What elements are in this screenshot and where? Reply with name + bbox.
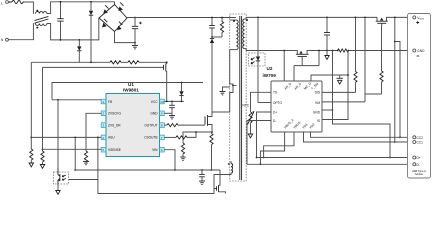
svg-text:CC1: CC1 xyxy=(417,141,424,145)
svg-text:KM: KM xyxy=(315,101,320,105)
transformer secondary winding xyxy=(243,17,284,50)
svg-text:GND: GND xyxy=(150,112,158,116)
transformer core xyxy=(240,16,242,180)
terminal CC1 xyxy=(413,141,423,145)
svg-text:DIS: DIS xyxy=(315,91,320,95)
wire L to choke xyxy=(24,2,33,14)
bulk capacitor C1 polarized xyxy=(132,17,142,43)
U1 pin 2 ZVSCFG xyxy=(101,111,121,116)
ZVSCFG resistor R6 with bar ground xyxy=(83,151,89,165)
svg-text:iW9801: iW9801 xyxy=(123,88,139,93)
svg-text:FB: FB xyxy=(108,100,112,104)
transformer T1 dashed box xyxy=(230,14,247,181)
wire ASU drop to bottom rail xyxy=(97,137,99,193)
svg-text:NTC: NTC xyxy=(243,104,250,108)
NTC thermistor xyxy=(243,92,272,138)
wire FB to opto collector xyxy=(52,99,101,169)
primary ground at bulk cap xyxy=(132,42,138,49)
svg-text:CSOUTB: CSOUTB xyxy=(144,136,157,140)
svg-text:GND: GND xyxy=(417,49,425,53)
secondary ground rail xyxy=(284,50,296,52)
U2 bottom pin labels rotated xyxy=(283,117,316,129)
snubber capacitor C2 xyxy=(209,17,215,37)
load switch MOSFET Q4 xyxy=(374,17,390,26)
svg-text:D+: D+ xyxy=(273,110,277,114)
U2 top pin labels rotated xyxy=(283,81,319,91)
IS route from U2 to shunt xyxy=(322,51,349,120)
terminal CC2 xyxy=(413,136,423,140)
U2 right pin labels xyxy=(313,91,321,123)
wire B gate of ZVS fet xyxy=(43,66,164,68)
chassis ground arrow at primary xyxy=(220,87,230,95)
svg-text:VSENSE: VSENSE xyxy=(108,148,121,152)
U1 pin 5 VSENSE xyxy=(101,147,121,152)
terminal D- xyxy=(413,163,420,167)
DIS line with resistor R9 xyxy=(322,17,357,93)
op IC U1 iW9801 body xyxy=(106,82,160,157)
vertical to CC2 xyxy=(394,41,401,139)
U2 VBUS pin route xyxy=(263,132,294,158)
optocoupler LED xyxy=(249,53,266,66)
wire N to choke xyxy=(8,24,33,40)
kelvin ground off sense wire xyxy=(337,75,343,84)
terminal GND xyxy=(413,49,425,56)
KM line to VBUS xyxy=(322,17,366,102)
U2 VD2 route to CC2 xyxy=(311,132,414,137)
wire ASU long horizontal xyxy=(31,136,101,138)
terminal VBUS xyxy=(413,16,425,24)
optocoupler phototransistor xyxy=(53,168,68,184)
wire y170 extension xyxy=(175,169,220,171)
MOSFET Q1 primary switch xyxy=(205,112,213,133)
wire CSOUT to sense node xyxy=(164,131,197,139)
snubber resistor R2 xyxy=(212,17,224,37)
wire choke bottom rail xyxy=(49,18,99,40)
svg-text:ASU: ASU xyxy=(108,136,115,140)
U2 D+ pin route xyxy=(256,112,271,158)
svg-text:GND: GND xyxy=(313,110,321,114)
VCC aux rail xyxy=(52,83,203,100)
svg-text:IS: IS xyxy=(317,119,320,123)
transformer primary winding xyxy=(230,20,238,50)
OUTPUT gate resistor R7 xyxy=(164,124,205,127)
U2 left pin labels xyxy=(273,91,282,123)
wire VIN loop xyxy=(75,150,175,170)
ZVS MOSFET Q3 xyxy=(164,61,168,101)
svg-text:VIN: VIN xyxy=(152,148,158,152)
svg-text:10: 10 xyxy=(160,100,164,104)
VCC decoupling capacitor C4 xyxy=(169,101,175,113)
ground arrow below opto xyxy=(56,184,60,194)
diode D1 startup feed xyxy=(89,1,93,62)
VSENSE resistor R5 with arrow ground xyxy=(40,148,44,168)
U2 VD1 route to CC1 xyxy=(304,132,414,142)
svg-text:U2: U2 xyxy=(267,66,273,71)
transformer aux winding xyxy=(214,161,233,194)
node N input terminal xyxy=(1,38,8,42)
wire A drop to config resistor xyxy=(30,62,32,137)
wire A to ZVS drain with series resistors xyxy=(31,61,166,64)
U2 D- pin route xyxy=(247,121,271,165)
wire VSENSE to pin 5 xyxy=(43,148,102,150)
wire T_SM sense xyxy=(311,75,348,81)
wire bridge minus to primary gnd xyxy=(115,32,136,43)
svg-text:D-: D- xyxy=(417,163,420,167)
wire GND pin to cap with ground bars xyxy=(164,113,175,119)
sync rectifier MOSFET Q2 xyxy=(283,50,308,66)
terminal D+ xyxy=(413,156,421,160)
U1 pin 10 VCC xyxy=(151,99,165,104)
common-mode choke L1 xyxy=(33,10,48,29)
small clamp fet near rail end xyxy=(214,170,226,194)
U1 pin 8 OUTPUT xyxy=(144,123,164,128)
DC+ rail to transformer primary xyxy=(127,17,236,19)
svg-text:VCC: VCC xyxy=(151,100,158,104)
wire choke to bridge top xyxy=(49,2,115,14)
wire ZVSCFG to resistor xyxy=(86,113,101,151)
filter wire from opto emitter to ASU drop xyxy=(69,179,98,181)
wire primary bottom jog to drain xyxy=(212,50,237,112)
U1 pin 7 CSOUT xyxy=(144,135,164,140)
snubber diode D2 xyxy=(210,36,214,112)
opto LED drop wire xyxy=(257,17,259,103)
D- rail xyxy=(247,163,413,165)
svg-text:OPTO: OPTO xyxy=(273,101,282,105)
svg-text:L: L xyxy=(1,1,3,5)
wire OPTO pin xyxy=(258,102,271,104)
D+ rail xyxy=(257,157,414,159)
U2 VBUS_A pin route xyxy=(260,132,285,165)
wire rail to U2 top pin1 xyxy=(283,51,285,82)
config resistor R4 with arrow ground xyxy=(29,137,33,167)
U1 pin 1 FB xyxy=(101,99,112,104)
U1 pin 6 VIN xyxy=(152,147,164,152)
USB type-c label xyxy=(412,169,426,176)
wire B drop to VSENSE divider xyxy=(42,67,44,149)
svg-text:iW709: iW709 xyxy=(263,73,277,78)
snubber cap C5 at source xyxy=(199,169,205,184)
IC U2 iW709 body xyxy=(263,66,323,132)
sense resistor R3 xyxy=(180,132,212,160)
secondary DC rail top xyxy=(258,16,374,18)
sync FET gate wiring xyxy=(294,50,320,81)
svg-text:D+: D+ xyxy=(417,156,421,160)
output capacitor C6 xyxy=(324,17,330,52)
VCC diode D3 from aux rail xyxy=(179,82,183,103)
svg-text:CC2: CC2 xyxy=(417,136,424,140)
U1 pin 9 GND xyxy=(150,111,164,116)
current shunt resistor R8 in ground rail xyxy=(337,49,350,52)
capacitor CX1 xyxy=(57,1,63,41)
bridge rectifier BR1 xyxy=(99,2,127,31)
vertical VBUS to CC1 xyxy=(394,17,396,143)
diode D4 startup feed from N xyxy=(77,39,81,62)
fuse F1 xyxy=(8,1,24,4)
damping resistor R11 at source node xyxy=(210,132,213,171)
svg-text:Socket: Socket xyxy=(415,172,423,176)
svg-text:OUTPUT: OUTPUT xyxy=(144,123,157,127)
VCC node wiring xyxy=(164,101,183,103)
U1 pin 3 ZVS_DR xyxy=(101,123,121,128)
node L input terminal xyxy=(1,1,8,6)
U1 pin 4 ASU xyxy=(101,135,115,140)
svg-text:ZVSCFG: ZVSCFG xyxy=(108,112,121,116)
GND route from U2 xyxy=(322,50,391,159)
gate pull resistor R10 xyxy=(365,26,383,94)
svg-text:ZVS_DR: ZVS_DR xyxy=(108,123,121,127)
svg-text:D-: D- xyxy=(273,119,276,123)
svg-text:TS: TS xyxy=(273,91,277,95)
USB connector box xyxy=(408,14,431,179)
bottom rail primary xyxy=(98,193,214,195)
secondary ground arrow below cap xyxy=(325,51,329,60)
